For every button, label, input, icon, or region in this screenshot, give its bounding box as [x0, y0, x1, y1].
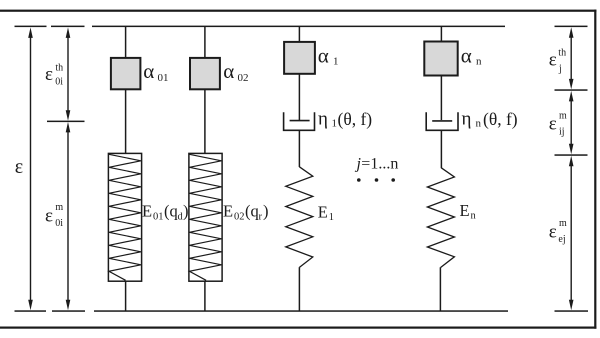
- svg-text:(θ, f): (θ, f): [338, 109, 373, 129]
- top bar reference segment (left, for epsilon arrow): [15, 26, 47, 28]
- spring En (open coil): [427, 168, 454, 268]
- thermal expansion box alpha01: [111, 58, 140, 89]
- svg-text:02: 02: [238, 72, 249, 84]
- top bar reference segment (second, for epsilon-0i arrow): [51, 26, 85, 28]
- svg-text:1: 1: [332, 118, 338, 130]
- label alpha02: [223, 59, 248, 84]
- svg-text:r: r: [259, 212, 263, 223]
- frame border right: [594, 10, 596, 329]
- label alpha01: [143, 59, 168, 84]
- svg-text:(θ, f): (θ, f): [483, 109, 518, 129]
- right tick bottom: [555, 310, 589, 312]
- thermal expansion box alphan: [424, 42, 457, 76]
- frame border top: [0, 10, 596, 12]
- label E1: [318, 203, 334, 224]
- wire branch2 top (top bar to alpha02 box): [204, 26, 206, 58]
- label En: [460, 201, 477, 222]
- label epsilon-ij-m: [549, 110, 567, 137]
- svg-text:(q: (q: [245, 202, 259, 221]
- svg-text:1: 1: [333, 55, 339, 67]
- bottom bar of model (rigid bar): [94, 310, 508, 312]
- svg-text:ε: ε: [549, 50, 557, 71]
- right tick third: [555, 154, 588, 156]
- dimension arrow epsilon-ij-m (double headed): [569, 91, 574, 154]
- label epsilon-0i-th: [45, 63, 63, 88]
- spring E1 (open coil): [286, 167, 313, 268]
- right tick second: [555, 89, 588, 91]
- svg-text:01: 01: [158, 72, 169, 84]
- dimension arrow epsilon (total strain, double headed): [28, 27, 33, 310]
- svg-text:): ): [183, 202, 189, 221]
- svg-text:α: α: [461, 44, 472, 68]
- label etan(theta,f): [462, 109, 518, 130]
- dashpot etan (cup and piston): [426, 112, 458, 130]
- dimension arrow epsilon-0i-m (double headed): [66, 122, 71, 310]
- thermal expansion box alpha1: [284, 42, 315, 74]
- svg-text:η: η: [462, 109, 472, 130]
- wire branch2 bottom (spring to bottom bar): [204, 281, 206, 311]
- svg-text:m: m: [559, 110, 567, 121]
- svg-text:j: j: [558, 63, 562, 74]
- svg-text:(q: (q: [164, 202, 178, 221]
- label E01(qd): [142, 202, 189, 223]
- svg-text:0i: 0i: [55, 77, 63, 88]
- svg-text:E: E: [223, 202, 233, 221]
- svg-text:th: th: [55, 63, 63, 74]
- svg-text:ε: ε: [15, 156, 23, 178]
- svg-text:ij: ij: [559, 126, 565, 137]
- svg-text:ε: ε: [45, 206, 53, 227]
- wire branch3 top (top bar to alpha1 box): [298, 26, 300, 42]
- svg-text:ε: ε: [549, 114, 557, 135]
- spring E02 (boxed spring): [189, 153, 222, 281]
- svg-text:=1...n: =1...n: [361, 156, 398, 173]
- dimension arrow epsilon-j-th (double headed): [569, 27, 574, 89]
- svg-text:α: α: [143, 59, 154, 83]
- svg-text:th: th: [558, 48, 566, 59]
- svg-text:0i: 0i: [55, 218, 63, 229]
- label epsilon-j-th: [549, 48, 566, 75]
- ellipsis dots (repeated branches): [357, 178, 395, 182]
- wire branch1 middle (box to spring E01): [125, 89, 127, 153]
- svg-text:ej: ej: [558, 234, 565, 245]
- wire branch4 piston stem (box to dashpot): [440, 75, 442, 120]
- svg-text:ε: ε: [45, 64, 53, 85]
- svg-text:m: m: [559, 218, 567, 229]
- svg-text:n: n: [476, 118, 482, 130]
- svg-text:η: η: [318, 109, 328, 130]
- bottom bar reference segment (left, for epsilon arrow): [15, 310, 47, 312]
- wire branch1 top (top bar to alpha01 box): [125, 26, 127, 58]
- wire branch4 (dashpot to spring En): [440, 130, 442, 168]
- label eta1(theta,f): [318, 109, 372, 130]
- bottom bar reference segment (second): [52, 310, 85, 312]
- wire branch3 piston stem (box to dashpot): [298, 74, 300, 120]
- tick line between left dimension arrows: [47, 121, 85, 123]
- label epsilon-0i-m: [45, 202, 63, 229]
- wire branch4 top (top bar to alphan box): [440, 26, 442, 42]
- wire branch1 bottom (spring to bottom bar): [125, 281, 127, 311]
- thermal expansion box alpha02: [190, 58, 220, 89]
- svg-text:α: α: [223, 59, 234, 83]
- right tick top: [555, 26, 588, 28]
- svg-text:E: E: [460, 201, 470, 220]
- svg-text:01: 01: [153, 212, 164, 223]
- label alphan: [461, 44, 482, 68]
- wire branch3 (dashpot to spring E1): [298, 130, 300, 167]
- dashpot eta1 (cup and piston): [284, 112, 315, 130]
- svg-text:E: E: [318, 203, 328, 222]
- svg-text:ε: ε: [549, 221, 557, 242]
- svg-text:): ): [263, 202, 269, 221]
- svg-text:n: n: [471, 211, 477, 222]
- label alpha1: [318, 44, 339, 68]
- svg-text:n: n: [476, 55, 482, 67]
- dimension arrow epsilon-ej-m (double headed): [569, 156, 574, 310]
- svg-text:α: α: [318, 44, 329, 68]
- wire branch2 middle (box to spring E02): [204, 89, 206, 153]
- wire branch3 bottom (spring to bottom bar): [298, 267, 300, 311]
- frame border bottom: [0, 327, 596, 329]
- svg-text:E: E: [142, 202, 152, 221]
- wire branch4 bottom (spring to bottom bar): [439, 267, 441, 311]
- top bar of model (rigid bar): [92, 26, 505, 28]
- svg-text:02: 02: [234, 212, 245, 223]
- dimension arrow epsilon-0i-th (double headed): [66, 27, 71, 120]
- label E02(qr): [223, 202, 269, 223]
- svg-text:1: 1: [329, 212, 334, 223]
- svg-text:m: m: [55, 202, 63, 213]
- spring E01 (boxed spring): [108, 153, 141, 281]
- label epsilon-ej-m: [549, 218, 567, 245]
